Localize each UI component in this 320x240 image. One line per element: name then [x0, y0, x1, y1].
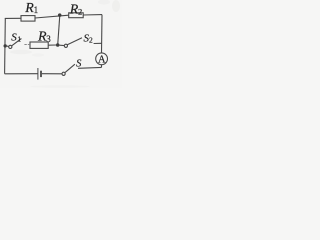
switch S pivot: [62, 72, 65, 75]
node: top junction dot: [58, 13, 62, 17]
switch S1 blade: [12, 39, 22, 46]
svg-text:S: S: [76, 59, 82, 70]
svg-text:3: 3: [46, 34, 51, 44]
wire battery to bottom-left corner: [5, 73, 38, 75]
wire ammeter to switch S contact: [78, 66, 102, 69]
label R1: [24, 1, 38, 16]
label S1: [11, 31, 21, 43]
label R3: [37, 30, 51, 45]
svg-text:S: S: [11, 31, 17, 43]
resistor R2: [69, 13, 84, 18]
switch S blade: [65, 64, 75, 72]
battery positive plate (long thin): [37, 68, 39, 80]
wire S1 stub from left junction: [7, 45, 9, 47]
wire R3 to middle junction: [48, 44, 56, 46]
wire R2 to top-right corner: [83, 14, 102, 16]
wire top-left corner to R1: [5, 17, 21, 20]
switch S2 blade: [67, 38, 82, 45]
label R2: [69, 2, 82, 17]
resistor R3: [30, 42, 48, 48]
svg-text:A: A: [98, 54, 106, 65]
background: [0, 0, 122, 88]
wire dashed lead to R3: [24, 43, 29, 45]
svg-text:2: 2: [89, 35, 93, 44]
svg-text:1: 1: [17, 35, 21, 44]
wire ammeter bottom stub: [101, 65, 103, 68]
wire left vertical: [4, 18, 7, 73]
wire middle vertical (top junction to middle junction): [58, 15, 60, 45]
switch S1 pivot: [9, 45, 12, 48]
wire S pivot to battery: [42, 73, 62, 75]
wire S2 contact to right vertical: [94, 42, 102, 44]
node: left junction dot: [3, 44, 6, 47]
battery negative plate (short thick): [40, 71, 42, 77]
ammeter A1: [96, 53, 108, 65]
resistor R1: [21, 16, 35, 22]
node: middle junction dot: [56, 43, 60, 47]
label S2: [84, 32, 94, 44]
wire right vertical: [101, 15, 104, 53]
svg-text:1: 1: [34, 5, 39, 15]
switch S2 pivot: [64, 44, 67, 47]
svg-text:2: 2: [78, 7, 82, 17]
wire middle junction to S2 pivot: [59, 44, 64, 46]
wire R1 to R2 (through top junction): [35, 15, 69, 18]
